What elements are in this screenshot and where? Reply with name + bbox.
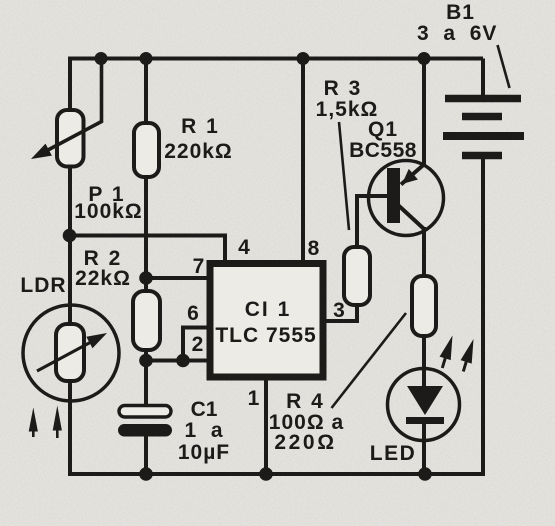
leader line 6V (498, 45, 510, 88)
svg-text:220kΩ: 220kΩ (164, 140, 233, 163)
wire P1 bottom to node (68, 164, 72, 236)
wire C1 to bottom rail (144, 436, 148, 474)
node P1 bottom junction (63, 229, 77, 243)
svg-text:R 4: R 4 (286, 390, 325, 413)
node wiper-rail junction (95, 52, 108, 65)
svg-text:1 a: 1 a (184, 419, 223, 442)
battery B1 plate 1 long (445, 95, 521, 103)
LED cathode bar (406, 417, 444, 424)
wire pin 6 (181, 326, 210, 330)
wire R3 top (355, 196, 359, 249)
resistor R3 body (344, 247, 370, 305)
node LED rail junction (418, 467, 432, 481)
LDR arrow (37, 333, 107, 371)
wire pin 3 horizontal (323, 319, 357, 323)
wire pin 6 riser (181, 328, 185, 363)
svg-text:B1: B1 (446, 1, 475, 24)
wire pin 7 (146, 276, 210, 280)
transistor Q1 base bar (387, 168, 400, 223)
svg-text:8: 8 (308, 237, 320, 260)
svg-text:Q1: Q1 (368, 118, 398, 141)
wire battery minus (481, 157, 485, 476)
wire Q1 base lead (355, 194, 390, 198)
wire R1 to R2 (144, 175, 148, 293)
svg-text:BC558: BC558 (349, 139, 417, 162)
battery B1 plate 3 long (443, 132, 524, 140)
wire LED cathode to rail (422, 421, 426, 474)
svg-text:3: 3 (333, 299, 345, 322)
svg-text:C1: C1 (191, 398, 218, 421)
svg-text:7: 7 (193, 255, 205, 278)
svg-text:CI 1: CI 1 (245, 298, 292, 321)
svg-text:R 3: R 3 (324, 77, 363, 100)
svg-text:100kΩ: 100kΩ (74, 200, 143, 223)
wire Q1 collector diagonal (398, 205, 424, 229)
svg-text:22kΩ: 22kΩ (75, 267, 131, 290)
LDR circle (23, 305, 119, 401)
wire top rail (68, 57, 483, 61)
svg-text:LDR: LDR (20, 274, 66, 297)
LED light arrow 1 (440, 336, 453, 369)
op-amp CI1 box (210, 264, 323, 378)
wire LDR vertical (68, 236, 72, 477)
svg-text:2: 2 (192, 333, 204, 356)
wire bottom rail (68, 472, 483, 476)
node pin1 rail junction (259, 467, 273, 481)
svg-text:R 1: R 1 (181, 115, 220, 138)
wire R1 column top (144, 59, 148, 126)
potentiometer P1 body (57, 110, 84, 167)
svg-text:6: 6 (187, 302, 199, 325)
wire Q1 collector vertical (422, 227, 426, 278)
LED triangle (407, 386, 443, 415)
node R2 bottom junction (139, 354, 153, 368)
wire pin 1 drop (264, 379, 268, 474)
wire node to pin 2 (146, 359, 210, 363)
leader line R4 (332, 313, 407, 408)
resistor R4 body (412, 276, 436, 336)
svg-text:TLC 7555: TLC 7555 (215, 324, 316, 347)
wire Q1 emitter diagonal (401, 164, 425, 185)
LDR light arrow 2 (53, 406, 62, 439)
capacitor C1 bottom plate (118, 424, 172, 437)
wire battery plus (481, 59, 485, 98)
resistor R1 body (134, 123, 159, 177)
node pin8-rail junction (297, 52, 310, 65)
wire node to pin4 horizontal (70, 234, 225, 238)
LDR body (56, 324, 84, 381)
wire P1 top drop (68, 57, 72, 113)
node pin2 junction (176, 354, 190, 368)
capacitor C1 top plate (119, 406, 171, 418)
potentiometer P1 wiper arrow (31, 59, 103, 160)
LED circle (388, 369, 460, 441)
wire pin 3 riser to R3 (355, 303, 359, 323)
transistor Q1 circle (369, 161, 444, 236)
resistor R2 body (133, 291, 160, 350)
wire R2 bottom to C1 (144, 349, 148, 407)
svg-text:220Ω: 220Ω (274, 431, 336, 454)
svg-text:10µF: 10µF (178, 441, 230, 464)
transistor Q1 emitter arrow (402, 169, 418, 184)
svg-text:LED: LED (370, 442, 417, 465)
node emitter-rail junction (418, 52, 431, 65)
LED light arrow 2 (461, 339, 474, 372)
node C1 rail junction (139, 467, 153, 481)
node R1-rail junction (140, 52, 153, 65)
battery B1 plate 2 short (462, 113, 502, 121)
battery B1 plate 4 short (462, 152, 502, 160)
wire pin 8 drop (301, 59, 305, 262)
wire R4 to LED (422, 334, 426, 388)
svg-text:4: 4 (238, 236, 250, 259)
wire pin 4 drop (223, 234, 227, 262)
node R2 top junction (139, 271, 153, 285)
LDR light arrow 1 (29, 408, 38, 438)
svg-text:1: 1 (248, 387, 260, 410)
svg-text:3 a 6V: 3 a 6V (417, 22, 497, 45)
leader line R3 (339, 122, 349, 230)
wire Q1 emitter vertical (422, 59, 426, 166)
